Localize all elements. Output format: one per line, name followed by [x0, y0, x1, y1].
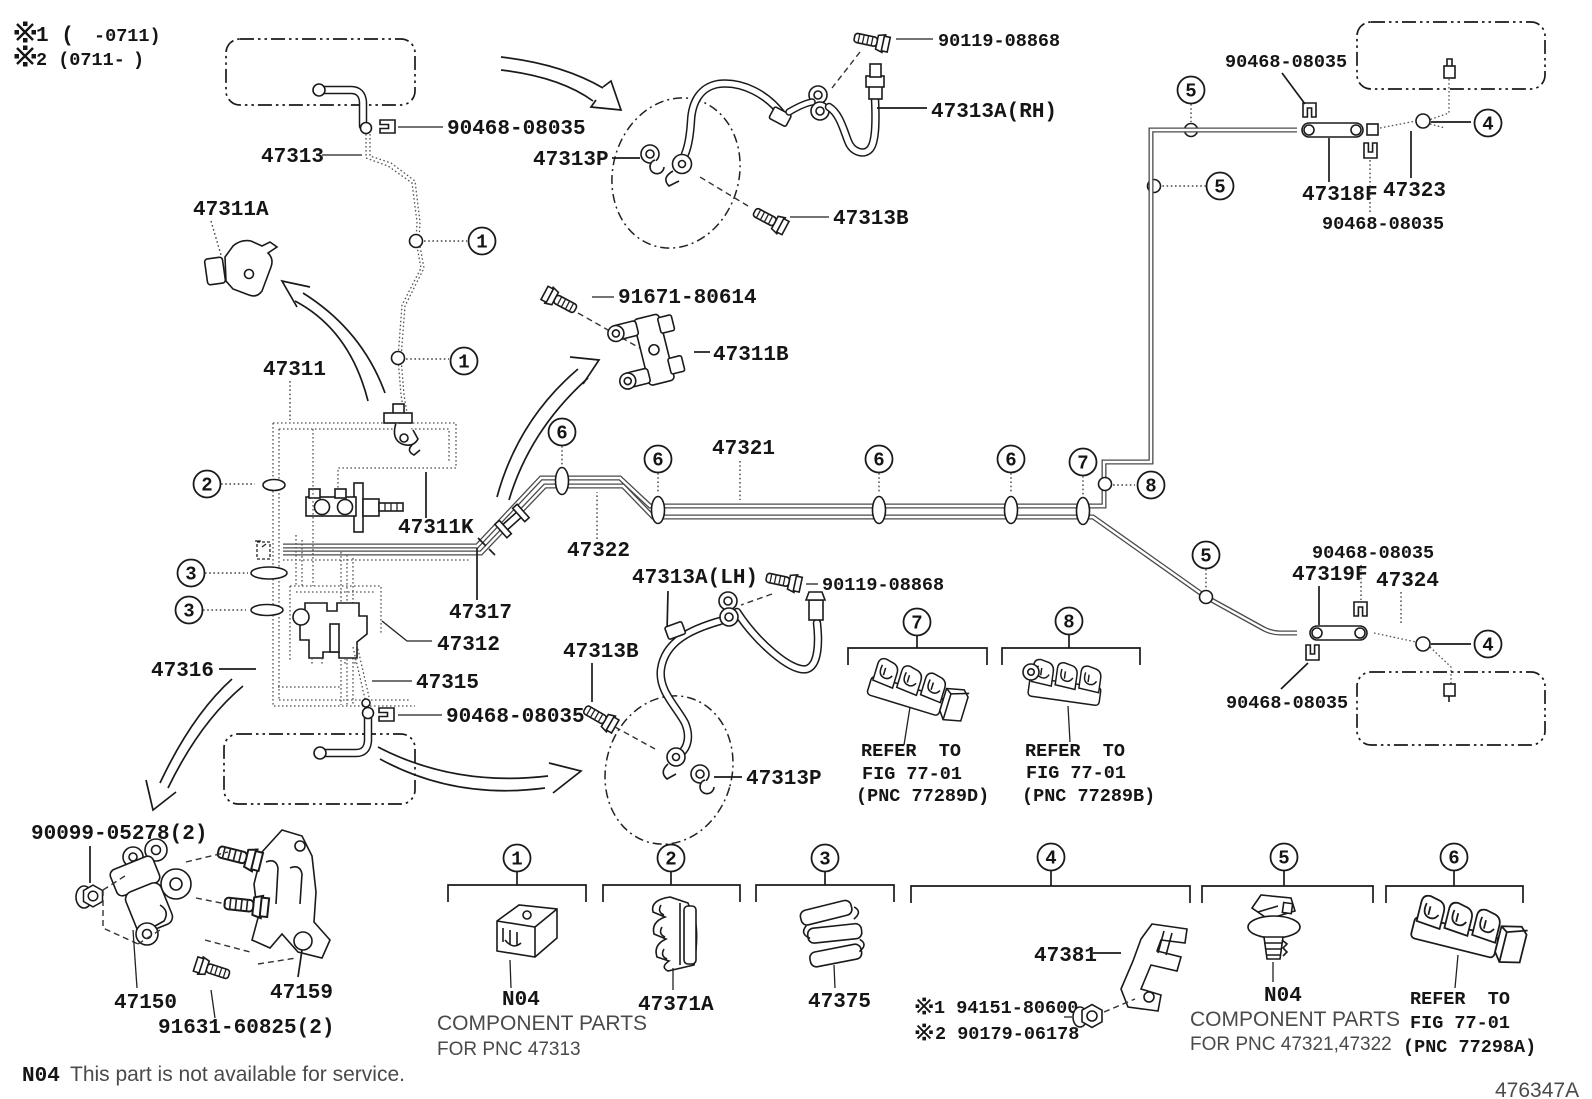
- bracket 47311A: [204, 241, 277, 296]
- note ref-mark 1 (-0711): [15, 22, 37, 43]
- svg-text:8: 8: [1063, 612, 1074, 634]
- node clamp5 second: [1148, 180, 1161, 193]
- leader 47311K: [425, 472, 427, 518]
- svg-text:47311B: 47311B: [713, 344, 789, 367]
- hose sleeve (LH): [664, 621, 685, 639]
- clamp 47375: [798, 898, 866, 968]
- master cylinder assy 47311K: [306, 483, 403, 532]
- leader 47313A(RH): [877, 107, 927, 109]
- bolt 47313B (top): [750, 204, 789, 236]
- leader 47324: [1400, 592, 1402, 625]
- dash-dot box (front left area): [226, 39, 415, 105]
- dashed line bolt 47313B to hose: [700, 177, 748, 206]
- circled 6 (detail): [1441, 844, 1468, 871]
- arrow (to 47311B): [497, 369, 588, 500]
- bolt 91671-80614: [540, 285, 579, 317]
- bundle curl left end: [255, 541, 270, 559]
- svg-text:90468-08035: 90468-08035: [1225, 52, 1347, 73]
- clamp ellipse 7: [1077, 498, 1090, 525]
- leader 47150: [133, 930, 137, 988]
- tube 47313 (thin pipe): [366, 134, 421, 413]
- clamp ellipse 6b: [652, 497, 665, 524]
- dotted link 47324: [1374, 633, 1451, 690]
- hose RH right drop: [829, 99, 875, 152]
- leader 90468 mid: [398, 714, 442, 716]
- clip 90468-08035 (TR): [1303, 103, 1316, 117]
- svg-text:90119-08868: 90119-08868: [822, 575, 944, 596]
- circled 5 (top): [1178, 77, 1205, 104]
- svg-text:47311: 47311: [263, 359, 326, 382]
- tube 47318F: [1302, 123, 1363, 137]
- leader 47311B: [694, 351, 710, 353]
- end fitting (RH): [866, 64, 884, 99]
- brake hose 47313A(RH) arch: [685, 84, 784, 154]
- leader detail 8: [1068, 706, 1070, 742]
- clip 90468-08035 (mid): [379, 708, 394, 721]
- clamp part detail 6 (PNC 77298A): [1410, 894, 1530, 967]
- dash-dot box (rear right bottom): [1357, 672, 1545, 745]
- bolt 90119-08868 (mid): [765, 569, 803, 594]
- bracket detail 6: [1386, 871, 1523, 903]
- svg-text:47311K: 47311K: [398, 517, 474, 540]
- svg-text:90468-08035: 90468-08035: [1322, 214, 1444, 235]
- clamp ellipse 6c: [873, 497, 886, 524]
- svg-text:1: 1: [511, 849, 522, 871]
- svg-text:6: 6: [873, 450, 884, 472]
- bolt 90119-08868 (top): [853, 29, 891, 54]
- clamp 47371A: [653, 897, 697, 971]
- svg-text:4: 4: [1482, 635, 1493, 657]
- svg-text:47318F: 47318F: [1302, 184, 1378, 207]
- svg-text:47313A(LH): 47313A(LH): [632, 567, 758, 590]
- leader 91671-80614: [592, 296, 614, 298]
- dashed line bolt to 47311B: [578, 313, 645, 351]
- svg-text:7: 7: [1077, 453, 1088, 475]
- bracket detail 3: [756, 871, 894, 902]
- leader 47375: [834, 965, 835, 988]
- leader 47311: [289, 381, 291, 420]
- dashed outline near 47150: [103, 874, 160, 944]
- valve 47150: [108, 839, 191, 945]
- rod 47315: [353, 645, 369, 699]
- svg-text:91631-60825(2): 91631-60825(2): [158, 1017, 334, 1040]
- circled 6 (b): [645, 446, 672, 473]
- svg-text:7: 7: [911, 613, 922, 635]
- clamp ellipse (2): [263, 480, 285, 491]
- clamp part detail 8 (PNC 77289B): [1028, 658, 1104, 705]
- leader detail 6: [1455, 955, 1458, 988]
- circled 7 (detail): [904, 609, 931, 636]
- svg-text:(PNC 77289D): (PNC 77289D): [856, 786, 989, 807]
- svg-text:47371A: 47371A: [638, 994, 714, 1017]
- grommet 47313P (LH): [691, 765, 714, 794]
- ref mark 1 94151-80600: [916, 998, 933, 1015]
- svg-text:476347A: 476347A: [1495, 1079, 1579, 1099]
- clamp ellipse (3b): [251, 605, 283, 616]
- svg-text:47375: 47375: [808, 991, 871, 1014]
- leader 7: [1082, 476, 1084, 495]
- fitting right of 47318F: [1367, 124, 1378, 135]
- leader circled 5 lower: [1205, 569, 1207, 588]
- bracket 47311B: [606, 311, 686, 393]
- svg-text:N04: N04: [1264, 985, 1302, 1008]
- hose LH right section: [737, 612, 818, 669]
- bolt 47313B (mid): [580, 701, 619, 734]
- note ref-mark 2 (0711-): [15, 46, 37, 67]
- leader 47313B mid: [591, 663, 593, 702]
- clamp ellipse 6a: [556, 468, 569, 495]
- circled 4 (bottom): [1475, 631, 1502, 658]
- svg-text:6: 6: [1005, 450, 1016, 472]
- clip 90468-08035 (below 47318F): [1364, 143, 1377, 158]
- leader circled 4 top: [1431, 121, 1471, 123]
- dashed ellipse (RH wheel area): [594, 83, 757, 264]
- svg-text:4: 4: [1482, 114, 1493, 136]
- label 47321 leader: [739, 461, 741, 500]
- leader 47313B top: [790, 216, 829, 218]
- banjo stack (LH): [719, 592, 738, 626]
- circled 7 (main): [1070, 449, 1097, 476]
- leader 90468 right top: [1360, 565, 1362, 600]
- dashed bolt to banjo (LH): [741, 594, 772, 605]
- arrow (to LH hose ellipse): [378, 747, 548, 791]
- bracket detail 1: [448, 871, 586, 902]
- nut 90099-05278: [76, 885, 103, 908]
- circled 2 (detail): [658, 845, 685, 872]
- leader 47316: [219, 668, 256, 670]
- leader 90119 mid: [806, 583, 818, 585]
- svg-text:47150: 47150: [114, 992, 177, 1015]
- clip (above 47319F): [1354, 602, 1367, 616]
- svg-text:47324: 47324: [1376, 570, 1439, 593]
- svg-text:3: 3: [185, 564, 196, 586]
- small connector in BR box: [1444, 684, 1455, 702]
- leader circled 5 second: [1162, 185, 1206, 187]
- bracket detail 5: [1202, 871, 1373, 903]
- circled 5 (lower): [1193, 542, 1220, 569]
- dotted drop from TR box: [1426, 79, 1449, 121]
- svg-text:N04: N04: [502, 989, 540, 1012]
- bracket detail 8: [1002, 635, 1140, 665]
- leader 6b: [657, 473, 659, 494]
- svg-text:47381: 47381: [1034, 945, 1097, 968]
- leader 47313: [322, 154, 362, 156]
- hose 47313A(LH) left drop: [661, 621, 720, 753]
- svg-text:47312: 47312: [437, 634, 500, 657]
- leader detail 5: [1272, 962, 1274, 982]
- leader detail 1: [510, 960, 511, 988]
- svg-text:FIG 77-01: FIG 77-01: [1410, 1013, 1510, 1034]
- svg-text:47323: 47323: [1383, 180, 1446, 203]
- svg-text:2: 2: [201, 475, 212, 497]
- svg-text:47317: 47317: [449, 602, 512, 625]
- tube 47322 run: [283, 486, 1297, 633]
- svg-text:1 (: 1 (: [36, 25, 74, 48]
- circled 5 (detail): [1271, 844, 1298, 871]
- dotted box 47311 assembly: [273, 423, 456, 706]
- node (4) top: [1416, 114, 1430, 128]
- circled 1 (detail): [504, 845, 531, 872]
- dashed line bolt to banjo (RH): [832, 52, 860, 88]
- leader 47315: [372, 680, 412, 682]
- svg-text:This part is not available for: This part is not available for service.: [70, 1063, 405, 1086]
- svg-text:5: 5: [1200, 546, 1211, 568]
- leader to circled 1b: [406, 358, 449, 360]
- svg-text:-0711): -0711): [94, 26, 161, 47]
- label 47322 leader: [596, 492, 598, 539]
- svg-text:FIG 77-01: FIG 77-01: [862, 764, 962, 785]
- part N04 block (detail 1): [497, 905, 557, 957]
- svg-text:6: 6: [556, 423, 567, 445]
- leader 90119-08868 top: [896, 38, 933, 40]
- circled 3 (detail): [812, 845, 839, 872]
- leader 47313P top: [612, 157, 640, 159]
- svg-text:47319F: 47319F: [1292, 564, 1368, 587]
- svg-text:5: 5: [1214, 177, 1225, 199]
- svg-text:47315: 47315: [416, 672, 479, 695]
- leader 90468-08035 TR: [1282, 73, 1305, 104]
- boss on detail 8 clamp: [1023, 664, 1039, 680]
- circled 8 (detail): [1056, 608, 1083, 635]
- svg-text:47313P: 47313P: [746, 768, 822, 791]
- svg-text:(PNC 77289B): (PNC 77289B): [1022, 786, 1155, 807]
- valve 47312: [293, 603, 367, 666]
- dashed bolt to eyelet (LH): [615, 727, 655, 749]
- svg-text:2: 2: [665, 849, 676, 871]
- leader 6a: [561, 446, 563, 465]
- leader circled 4 bottom: [1431, 643, 1471, 645]
- svg-text:90468-08035: 90468-08035: [446, 706, 585, 729]
- small connector in TR box: [1444, 59, 1455, 78]
- svg-text:90468-08035: 90468-08035: [447, 118, 586, 141]
- circled 6 (a): [549, 419, 576, 446]
- svg-text:47316: 47316: [151, 660, 214, 683]
- circled 2: [194, 471, 221, 498]
- leader 47371A: [672, 968, 674, 990]
- node clamp5 top: [1185, 124, 1198, 137]
- leader 90468 TR2: [1369, 160, 1371, 212]
- junction 47317 (H connector): [495, 504, 529, 537]
- circled 3 (a): [178, 560, 205, 587]
- leader 90468 right bottom: [1281, 663, 1308, 689]
- circled 8 (main): [1138, 472, 1165, 499]
- circled 6 (d): [998, 446, 1025, 473]
- leader 6c: [878, 473, 880, 494]
- leader detail 7: [904, 707, 910, 745]
- leader 8: [1113, 484, 1135, 486]
- leader 47319F: [1318, 586, 1320, 625]
- hose stub in top box: [324, 90, 363, 126]
- circled 6 (c): [866, 446, 893, 473]
- svg-text:COMPONENT PARTS: COMPONENT PARTS: [1190, 1008, 1400, 1031]
- node clamp5 lower: [1200, 591, 1213, 604]
- leader circled 3a: [205, 572, 248, 574]
- leader 47312: [382, 621, 432, 641]
- clip part (detail 5): [1248, 895, 1300, 959]
- bracket detail 2: [603, 871, 740, 902]
- bracket detail 4: [911, 870, 1190, 903]
- leader circled 2: [221, 483, 255, 485]
- node (4) bottom: [1416, 637, 1430, 651]
- svg-text:8: 8: [1145, 476, 1156, 498]
- svg-text:1 94151-80600: 1 94151-80600: [934, 998, 1078, 1019]
- bracket detail 7: [848, 636, 987, 665]
- svg-text:47313P: 47313P: [533, 149, 609, 172]
- svg-text:90468-08035: 90468-08035: [1312, 543, 1434, 564]
- leader 47159: [298, 950, 302, 977]
- leader 90099-05278: [89, 846, 91, 883]
- dotted box around 47312: [278, 489, 381, 687]
- long bolt a (47159): [216, 840, 264, 872]
- svg-text:2 (0711-: 2 (0711-: [36, 50, 125, 71]
- svg-text:90119-08868: 90119-08868: [938, 31, 1060, 52]
- circled 4 (top): [1475, 110, 1502, 137]
- svg-text:REFER TO: REFER TO: [1410, 989, 1510, 1010]
- svg-text:REFER TO: REFER TO: [861, 741, 961, 762]
- svg-text:91671-80614: 91671-80614: [618, 287, 757, 310]
- node clamp1 position a: [410, 235, 423, 248]
- end fitting (LH): [806, 592, 825, 620]
- dashed nut to 47381: [1104, 999, 1135, 1012]
- clamp ellipse 6d: [1005, 497, 1018, 524]
- svg-text:90099-05278(2): 90099-05278(2): [31, 823, 207, 846]
- arrow (to 47311A): [295, 293, 385, 401]
- bracket 47159: [252, 830, 330, 958]
- leader circled 5 top: [1190, 104, 1192, 122]
- svg-text:FIG 77-01: FIG 77-01: [1026, 763, 1126, 784]
- grommet 47313P (RH): [641, 145, 664, 174]
- leader 47318F: [1328, 138, 1330, 182]
- svg-text:47313: 47313: [261, 146, 324, 169]
- long bolt b (47159): [223, 892, 269, 919]
- nut (detail 4): [1073, 1005, 1102, 1028]
- svg-text:COMPONENT PARTS: COMPONENT PARTS: [437, 1012, 647, 1035]
- tube 47323 (short link): [1380, 121, 1445, 128]
- svg-text:2 90179-06178: 2 90179-06178: [935, 1024, 1079, 1045]
- svg-text:47321: 47321: [712, 438, 775, 461]
- dotted bundle 47316: [274, 552, 415, 706]
- svg-text:N04: N04: [22, 1065, 60, 1088]
- circled 4 (detail): [1038, 844, 1065, 871]
- leader circled 3b: [203, 609, 246, 611]
- circled 5 (second): [1207, 173, 1234, 200]
- svg-text:FOR PNC 47321,47322: FOR PNC 47321,47322: [1190, 1034, 1392, 1055]
- svg-text:47159: 47159: [270, 982, 333, 1005]
- clip 90468-08035 (right bottom): [1306, 645, 1319, 660]
- extra bundle line: [283, 559, 470, 561]
- arrow (top, to RH hose): [501, 57, 603, 101]
- leader 91631-60825: [211, 990, 215, 1018]
- clamp 47381: [1121, 924, 1187, 1011]
- leader 47313P (LH): [714, 776, 742, 778]
- svg-text:(PNC 77298A): (PNC 77298A): [1403, 1037, 1536, 1058]
- node clamp1 position b: [392, 352, 405, 365]
- hose stub in bottom box: [325, 714, 368, 753]
- leader 6d: [1010, 473, 1012, 494]
- leader 47323: [1410, 131, 1412, 178]
- svg-text:3: 3: [819, 849, 830, 871]
- svg-text:): ): [133, 50, 144, 71]
- fitting on 47311K tube end: [384, 404, 420, 455]
- node clamp8: [1099, 478, 1112, 491]
- svg-text:47311A: 47311A: [193, 199, 269, 222]
- clip 90468-08035 (top): [380, 120, 395, 133]
- svg-text:47322: 47322: [567, 540, 630, 563]
- hose sleeve (RH): [769, 106, 792, 126]
- circled 1 (b): [451, 348, 478, 375]
- circled 3 (b): [176, 597, 203, 624]
- dashed ellipse (LH wheel area): [588, 681, 750, 860]
- tube 47319F: [1310, 626, 1367, 640]
- svg-text:1: 1: [476, 232, 487, 254]
- svg-text:6: 6: [652, 450, 663, 472]
- dash-dot box (rear axle left): [224, 734, 415, 804]
- banjo stack (RH): [809, 86, 829, 120]
- svg-text:4: 4: [1045, 848, 1056, 870]
- dash-dot box (rear right top): [1357, 22, 1545, 89]
- svg-text:47313A(RH): 47313A(RH): [931, 101, 1057, 124]
- leader nut: [1064, 1016, 1072, 1018]
- clamp ellipse (3a): [251, 567, 287, 579]
- eyelet fitting 47313P (RH, in ellipse): [666, 155, 692, 187]
- bolt 91631-60825: [193, 955, 232, 983]
- arrow (to valve assembly, bottom left): [160, 679, 243, 788]
- dashed links assembly: [186, 852, 296, 964]
- svg-text:1: 1: [458, 352, 469, 374]
- leader 47381: [1093, 952, 1121, 954]
- svg-text:5: 5: [1278, 848, 1289, 870]
- leader 47311A: [211, 221, 221, 255]
- leader to circled 1a: [424, 240, 467, 242]
- svg-text:6: 6: [1448, 848, 1459, 870]
- svg-text:FOR PNC 47313: FOR PNC 47313: [437, 1039, 581, 1060]
- svg-text:47313B: 47313B: [563, 641, 639, 664]
- ref mark 2 90179-06178: [916, 1024, 933, 1041]
- svg-text:3: 3: [183, 601, 194, 623]
- leader 90468-08035 top: [398, 126, 443, 128]
- svg-text:REFER TO: REFER TO: [1025, 741, 1125, 762]
- eyelet fitting (LH): [663, 748, 685, 779]
- clamp part detail 7 (PNC 77289D): [866, 657, 972, 725]
- svg-text:90468-08035: 90468-08035: [1226, 693, 1348, 714]
- leader 47317: [476, 548, 478, 600]
- tube 47321 run: [283, 130, 1297, 546]
- circled 1 (a): [469, 228, 496, 255]
- svg-text:47313B: 47313B: [833, 208, 909, 231]
- svg-text:5: 5: [1185, 81, 1196, 103]
